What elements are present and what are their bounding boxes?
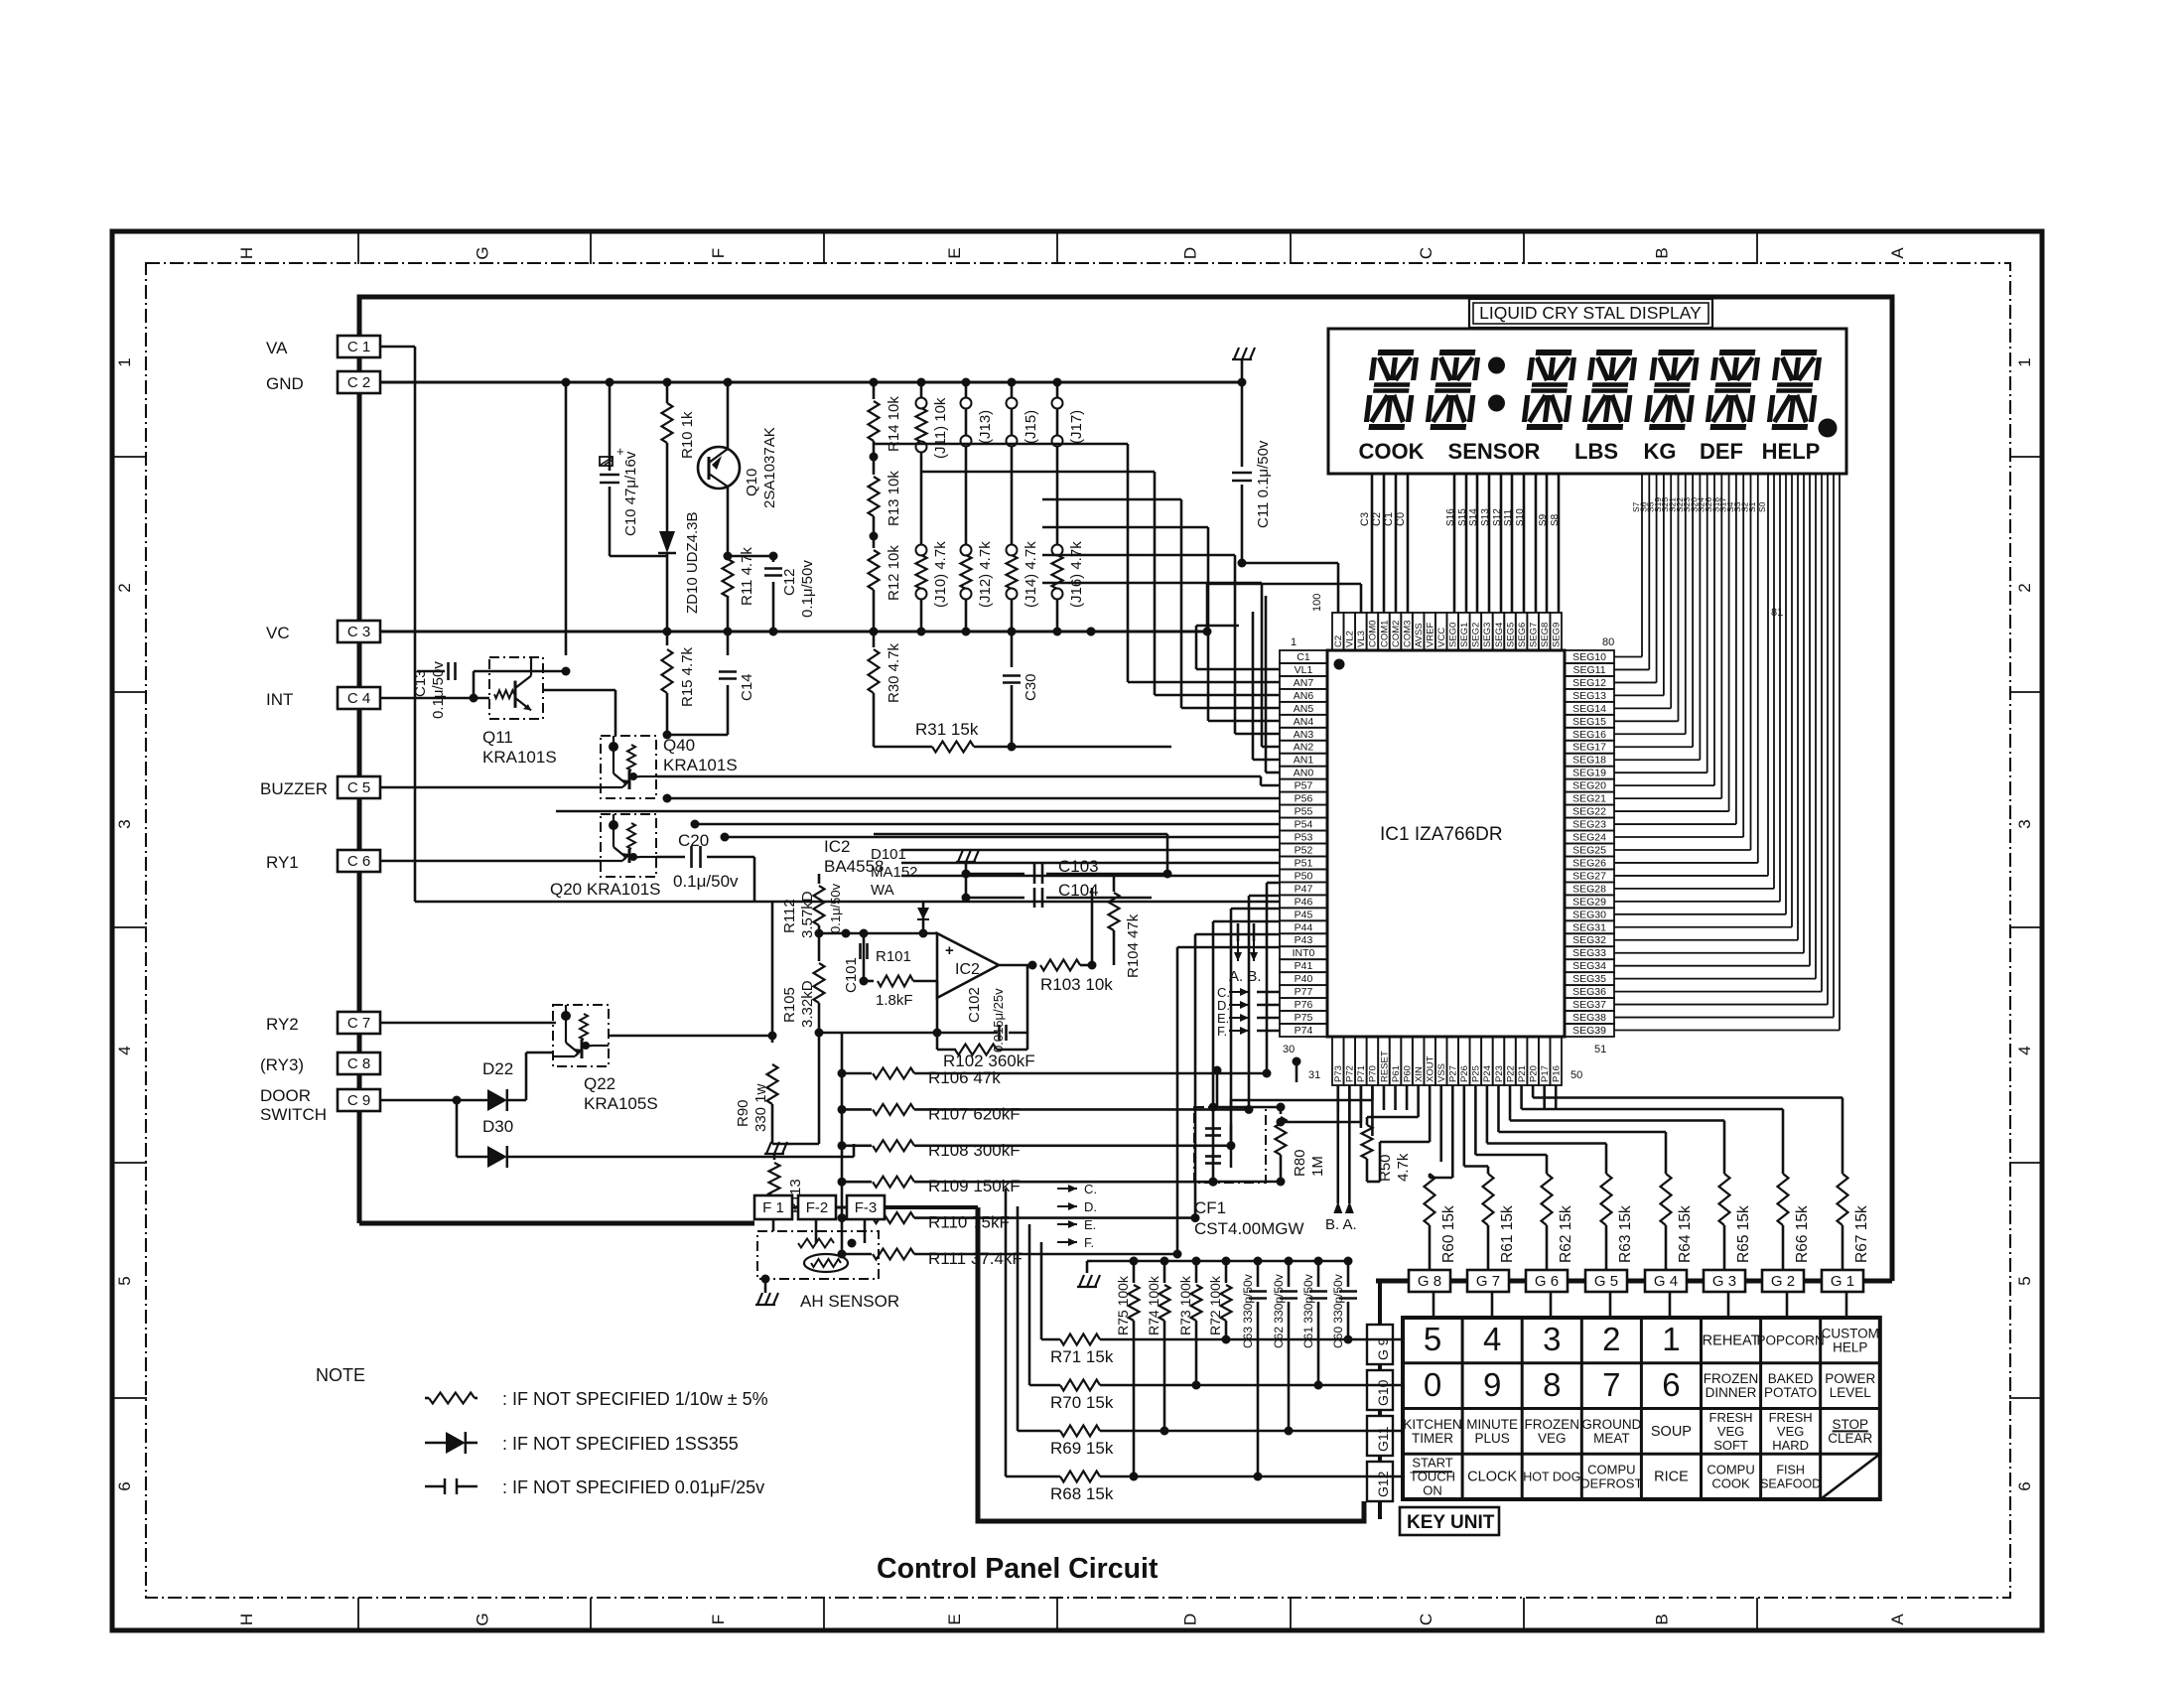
svg-text:SEG31: SEG31 [1572, 921, 1606, 933]
svg-text:P22: P22 [1505, 1065, 1516, 1082]
svg-text:R13 10k: R13 10k [886, 471, 902, 526]
svg-text:R105: R105 [781, 987, 798, 1023]
svg-text:MEAT: MEAT [1593, 1431, 1630, 1446]
svg-text:9: 9 [1483, 1366, 1501, 1403]
svg-text:FRESH: FRESH [1769, 1410, 1813, 1425]
svg-text:SEG10: SEG10 [1572, 651, 1606, 663]
svg-text:P75: P75 [1295, 1012, 1313, 1024]
svg-text:P76: P76 [1295, 999, 1313, 1011]
svg-text:CLOCK: CLOCK [1467, 1470, 1517, 1485]
svg-text:COOK: COOK [1711, 1476, 1750, 1491]
svg-text:TIMER: TIMER [1412, 1431, 1453, 1446]
svg-text:VC: VC [266, 624, 290, 642]
svg-text:P54: P54 [1295, 819, 1313, 831]
svg-text:DOOR: DOOR [260, 1086, 311, 1105]
svg-text:VL1: VL1 [1295, 664, 1313, 676]
svg-text:SEG19: SEG19 [1572, 768, 1606, 779]
svg-text:SOFT: SOFT [1713, 1438, 1748, 1453]
svg-text:P72: P72 [1345, 1065, 1356, 1082]
svg-text:SEG8: SEG8 [1540, 623, 1551, 647]
svg-text:SEG22: SEG22 [1572, 806, 1606, 818]
svg-text:2: 2 [1602, 1321, 1620, 1357]
svg-text:E: E [945, 1614, 964, 1624]
svg-text:AN0: AN0 [1294, 768, 1314, 779]
svg-text:R104 47k: R104 47k [1125, 913, 1142, 978]
svg-text:330 1w: 330 1w [752, 1083, 769, 1132]
svg-text:Control Panel Circuit: Control Panel Circuit [877, 1553, 1159, 1585]
svg-text:CLEAR: CLEAR [1828, 1431, 1872, 1446]
svg-text:3.32kD: 3.32kD [799, 980, 816, 1028]
svg-text:CST4.00MGW: CST4.00MGW [1194, 1219, 1304, 1238]
svg-text:C 1: C 1 [347, 339, 370, 355]
svg-text:R103 10k: R103 10k [1040, 975, 1113, 994]
svg-text:KRA101S: KRA101S [482, 748, 557, 767]
svg-text:P61: P61 [1391, 1065, 1402, 1082]
svg-text:S15: S15 [1457, 508, 1468, 526]
svg-text:R64 15k: R64 15k [1677, 1205, 1694, 1263]
svg-text:E.: E. [1084, 1217, 1096, 1232]
svg-text:P43: P43 [1295, 934, 1313, 946]
svg-text:P16: P16 [1552, 1065, 1563, 1082]
svg-text:P45: P45 [1295, 909, 1313, 920]
svg-text:HARD: HARD [1772, 1438, 1809, 1453]
svg-text:F-2: F-2 [806, 1199, 829, 1216]
svg-text:COMPU: COMPU [1706, 1463, 1754, 1477]
svg-text:Q22: Q22 [584, 1074, 615, 1093]
svg-text:SEG33: SEG33 [1572, 947, 1606, 959]
svg-text:VEG: VEG [1777, 1424, 1804, 1439]
svg-text:5: 5 [1424, 1321, 1441, 1357]
svg-text:SEG7: SEG7 [1528, 623, 1539, 647]
svg-text:0.1μ/50v: 0.1μ/50v [799, 560, 816, 618]
svg-text:C60 330p/50v: C60 330p/50v [1331, 1274, 1345, 1348]
svg-text:S1: S1 [1747, 501, 1757, 512]
svg-text:R111 37.4kF: R111 37.4kF [928, 1249, 1023, 1268]
svg-text:MA152: MA152 [871, 864, 918, 881]
svg-text:DEFROST: DEFROST [1580, 1476, 1642, 1491]
svg-text:A. B.: A. B. [1229, 968, 1262, 985]
svg-text:(J10) 4.7k: (J10) 4.7k [932, 541, 949, 608]
svg-text:RY2: RY2 [266, 1015, 299, 1034]
svg-text:G 8: G 8 [1418, 1273, 1441, 1290]
svg-text:XOUT: XOUT [1425, 1055, 1435, 1082]
svg-text:VREF: VREF [1425, 622, 1435, 647]
svg-text:P17: P17 [1540, 1065, 1551, 1082]
svg-text:SEG4: SEG4 [1494, 623, 1505, 647]
svg-text:Q20 KRA101S: Q20 KRA101S [550, 880, 661, 899]
svg-text:F: F [709, 1614, 728, 1624]
svg-text:R73 100k: R73 100k [1177, 1275, 1193, 1335]
svg-text:R62 15k: R62 15k [1558, 1205, 1574, 1263]
svg-text:POWER: POWER [1825, 1371, 1875, 1386]
svg-text:6: 6 [115, 1481, 134, 1490]
svg-text:1: 1 [2015, 357, 2034, 366]
svg-text:LIQUID CRY STAL DISPLAY: LIQUID CRY STAL DISPLAY [1479, 303, 1702, 323]
svg-text:7: 7 [1602, 1366, 1620, 1403]
svg-text:PLUS: PLUS [1475, 1431, 1510, 1446]
svg-text:POPCORN: POPCORN [1757, 1333, 1825, 1347]
svg-text:AN3: AN3 [1294, 729, 1314, 741]
svg-text:4.7k: 4.7k [1395, 1153, 1412, 1182]
svg-text:F: F [709, 248, 728, 258]
svg-text:R110 75kF: R110 75kF [928, 1213, 1010, 1232]
svg-text:R107 620kF: R107 620kF [928, 1104, 1021, 1123]
svg-text:S8: S8 [1550, 513, 1561, 526]
svg-text:C 5: C 5 [347, 779, 370, 796]
svg-text:R65 15k: R65 15k [1735, 1205, 1752, 1263]
svg-text:D30: D30 [482, 1117, 513, 1136]
svg-text:IC2: IC2 [955, 961, 980, 978]
svg-text:D.: D. [1084, 1199, 1097, 1214]
svg-text:P20: P20 [1528, 1065, 1539, 1082]
svg-text:B: B [1653, 1614, 1672, 1624]
svg-text:S12: S12 [1492, 508, 1503, 526]
svg-text:R90: R90 [735, 1099, 751, 1127]
svg-text:AN7: AN7 [1294, 677, 1314, 689]
svg-text:R101: R101 [876, 948, 911, 965]
svg-text:SEG21: SEG21 [1572, 793, 1606, 805]
svg-text:FRESH: FRESH [1709, 1410, 1753, 1425]
svg-text:REHEAT: REHEAT [1703, 1333, 1760, 1348]
svg-text:C1: C1 [1297, 651, 1310, 663]
svg-text:SEG11: SEG11 [1572, 664, 1605, 676]
svg-text:KRA101S: KRA101S [663, 756, 738, 774]
svg-text:3.57kD: 3.57kD [799, 891, 816, 938]
svg-text:C 8: C 8 [347, 1055, 370, 1072]
svg-text:G 2: G 2 [1771, 1273, 1795, 1290]
svg-text:BUZZER: BUZZER [260, 779, 328, 798]
svg-text:R112: R112 [781, 899, 798, 933]
svg-text:2SA1037AK: 2SA1037AK [761, 427, 778, 508]
svg-text:SEG35: SEG35 [1572, 973, 1606, 985]
svg-text:R63 15k: R63 15k [1617, 1205, 1634, 1263]
svg-text:(RY3): (RY3) [260, 1055, 304, 1074]
svg-text:SEG23: SEG23 [1572, 819, 1606, 831]
svg-text:LBS: LBS [1574, 439, 1618, 464]
svg-text:1M: 1M [1309, 1156, 1326, 1177]
svg-text:F.: F. [1217, 1024, 1227, 1039]
svg-text:C101: C101 [843, 957, 860, 993]
svg-text:WA: WA [871, 882, 894, 899]
svg-text:AN5: AN5 [1294, 703, 1314, 715]
svg-text:C102: C102 [966, 987, 983, 1023]
svg-text:P27: P27 [1448, 1065, 1459, 1082]
svg-text:SEG39: SEG39 [1572, 1025, 1606, 1037]
svg-text:R69 15k: R69 15k [1050, 1439, 1114, 1458]
svg-text:P25: P25 [1471, 1065, 1482, 1082]
svg-text:VL3: VL3 [1356, 631, 1367, 647]
svg-text:G10: G10 [1375, 1379, 1391, 1406]
svg-text:POTATO: POTATO [1764, 1385, 1817, 1400]
svg-text:(J12) 4.7k: (J12) 4.7k [977, 541, 994, 608]
svg-text:F 1: F 1 [762, 1199, 784, 1216]
svg-text:R15 4.7k: R15 4.7k [679, 646, 696, 707]
svg-text:C3: C3 [1359, 512, 1371, 526]
svg-text:H: H [237, 247, 256, 259]
svg-text:C2: C2 [1333, 635, 1344, 647]
svg-text:G 9: G 9 [1375, 1337, 1391, 1360]
svg-text:Q40: Q40 [663, 736, 695, 755]
svg-text:(J13): (J13) [977, 410, 994, 444]
svg-text:2: 2 [2015, 583, 2034, 592]
svg-text:COM2: COM2 [1391, 621, 1402, 647]
svg-text:H: H [237, 1614, 256, 1625]
svg-text:5: 5 [115, 1276, 134, 1285]
svg-text:4: 4 [2015, 1046, 2034, 1054]
svg-text:3: 3 [115, 819, 134, 828]
svg-text:(J16) 4.7k: (J16) 4.7k [1068, 541, 1085, 608]
svg-text:50: 50 [1570, 1069, 1582, 1081]
svg-text:1: 1 [1662, 1321, 1680, 1357]
svg-text:P44: P44 [1295, 921, 1313, 933]
svg-text:SEG27: SEG27 [1572, 870, 1606, 882]
svg-text:MINUTE: MINUTE [1466, 1417, 1518, 1432]
svg-text:SEG15: SEG15 [1572, 716, 1606, 728]
svg-text:6: 6 [2015, 1481, 2034, 1490]
svg-text:SEG6: SEG6 [1517, 623, 1528, 647]
svg-text:HOT DOG: HOT DOG [1523, 1471, 1580, 1484]
svg-text:: IF NOT SPECIFIED 1/10w ± 5%: : IF NOT SPECIFIED 1/10w ± 5% [502, 1389, 768, 1409]
svg-text:INT: INT [266, 690, 293, 709]
svg-text:SEG1: SEG1 [1459, 623, 1470, 647]
svg-text:51: 51 [1594, 1044, 1606, 1055]
svg-text:SEG9: SEG9 [1552, 623, 1563, 647]
svg-text:0.1μ/50v: 0.1μ/50v [673, 872, 739, 891]
svg-text:GROUND: GROUND [1581, 1417, 1641, 1432]
svg-text:81: 81 [1771, 607, 1783, 619]
svg-text:RESET: RESET [1379, 1051, 1390, 1082]
svg-text:C11 0.1μ/50v: C11 0.1μ/50v [1255, 440, 1272, 528]
svg-text:VSS: VSS [1436, 1063, 1447, 1082]
svg-text:AN6: AN6 [1294, 690, 1314, 702]
svg-text:0.1μ/50v: 0.1μ/50v [430, 661, 447, 719]
svg-text:SEG14: SEG14 [1572, 703, 1606, 715]
svg-text:P55: P55 [1295, 806, 1313, 818]
svg-text:KITCHEN: KITCHEN [1403, 1417, 1461, 1432]
svg-text:SEG29: SEG29 [1572, 896, 1606, 908]
svg-text:RICE: RICE [1654, 1470, 1689, 1485]
svg-text:AN4: AN4 [1294, 716, 1314, 728]
svg-text:P47: P47 [1295, 883, 1313, 895]
svg-text:DEF: DEF [1700, 439, 1743, 464]
svg-text:D22: D22 [482, 1059, 513, 1078]
svg-text:RY1: RY1 [266, 853, 299, 872]
svg-text:SEG25: SEG25 [1572, 844, 1606, 856]
svg-text:C14: C14 [739, 673, 755, 701]
svg-text:SWITCH: SWITCH [260, 1105, 327, 1124]
svg-text:C104: C104 [1058, 881, 1099, 900]
svg-text:SEAFOOD: SEAFOOD [1760, 1477, 1821, 1491]
svg-text:SEG5: SEG5 [1505, 623, 1516, 647]
svg-text:R72 100k: R72 100k [1207, 1275, 1223, 1335]
svg-text:C0: C0 [1395, 512, 1407, 526]
svg-text:SEG36: SEG36 [1572, 986, 1606, 998]
svg-text:C 7: C 7 [347, 1015, 370, 1032]
svg-text:LEVEL: LEVEL [1830, 1385, 1872, 1400]
svg-text:8: 8 [1543, 1366, 1561, 1403]
svg-text:AVSS: AVSS [1414, 623, 1425, 647]
svg-text:P73: P73 [1333, 1065, 1344, 1082]
svg-text:CUSTOM: CUSTOM [1822, 1326, 1879, 1340]
svg-text:SEG3: SEG3 [1482, 623, 1493, 647]
svg-text:SENSOR: SENSOR [1448, 439, 1541, 464]
svg-text:B. A.: B. A. [1325, 1216, 1357, 1233]
svg-text:R66 15k: R66 15k [1794, 1205, 1811, 1263]
svg-text:P56: P56 [1295, 793, 1313, 805]
svg-text:F.: F. [1084, 1235, 1094, 1250]
svg-text:A: A [1888, 247, 1907, 259]
svg-text:B: B [1653, 247, 1672, 258]
svg-text:G 6: G 6 [1535, 1273, 1559, 1290]
svg-text:F-3: F-3 [855, 1199, 878, 1216]
svg-text:P50: P50 [1295, 870, 1313, 882]
svg-text:R108 300kF: R108 300kF [928, 1141, 1021, 1160]
svg-text:NOTE: NOTE [316, 1365, 365, 1385]
svg-text:INT0: INT0 [1293, 947, 1315, 959]
svg-text:S14: S14 [1468, 508, 1479, 526]
svg-text:FROZEN: FROZEN [1704, 1371, 1759, 1386]
svg-text:R67 15k: R67 15k [1853, 1205, 1870, 1263]
svg-text:P71: P71 [1356, 1065, 1367, 1082]
svg-text:: IF NOT SPECIFIED 0.01μF/25v: : IF NOT SPECIFIED 0.01μF/25v [502, 1477, 764, 1497]
svg-text:P46: P46 [1295, 896, 1313, 908]
svg-text:COM1: COM1 [1379, 621, 1390, 647]
svg-text:(J11) 10k: (J11) 10k [932, 397, 949, 459]
svg-text:P57: P57 [1295, 780, 1313, 792]
svg-text:S0: S0 [1757, 501, 1767, 512]
svg-text:SEG17: SEG17 [1572, 742, 1606, 754]
svg-text:R80: R80 [1292, 1149, 1308, 1177]
svg-text:SEG0: SEG0 [1448, 623, 1459, 647]
svg-text:FISH: FISH [1776, 1464, 1804, 1477]
svg-text:SEG24: SEG24 [1572, 832, 1606, 844]
svg-text:CF1: CF1 [1194, 1198, 1226, 1217]
svg-text:C2: C2 [1371, 512, 1383, 526]
svg-text:COM3: COM3 [1402, 621, 1413, 647]
svg-text:R61 15k: R61 15k [1499, 1205, 1516, 1263]
svg-text:R10 1k: R10 1k [679, 411, 696, 459]
svg-text:(J15): (J15) [1023, 410, 1039, 444]
svg-text:COM0: COM0 [1368, 621, 1379, 647]
svg-text:5: 5 [2015, 1276, 2034, 1285]
svg-text:1.8kF: 1.8kF [876, 992, 913, 1009]
svg-text:(J14) 4.7k: (J14) 4.7k [1023, 541, 1039, 608]
svg-text:AN2: AN2 [1294, 742, 1314, 754]
svg-text:ON: ON [1423, 1483, 1442, 1498]
svg-text:P51: P51 [1295, 857, 1313, 869]
svg-text:P23: P23 [1494, 1065, 1505, 1082]
svg-text:100: 100 [1311, 594, 1323, 612]
svg-text:G 1: G 1 [1831, 1273, 1854, 1290]
svg-text:SEG34: SEG34 [1572, 960, 1606, 972]
svg-text:R31 15k: R31 15k [915, 720, 979, 739]
svg-text:G: G [474, 1613, 492, 1625]
svg-text:S9: S9 [1538, 513, 1549, 526]
svg-text:30: 30 [1283, 1044, 1295, 1055]
svg-text:P60: P60 [1402, 1065, 1413, 1082]
svg-text:SEG13: SEG13 [1572, 690, 1606, 702]
svg-text:C63 330p/50v: C63 330p/50v [1241, 1274, 1255, 1348]
svg-text:BAKED: BAKED [1768, 1371, 1814, 1386]
svg-text:31: 31 [1308, 1069, 1320, 1081]
svg-text:C103: C103 [1058, 857, 1099, 876]
svg-text:SEG2: SEG2 [1471, 623, 1482, 647]
svg-text:DINNER: DINNER [1706, 1385, 1757, 1400]
svg-text:3: 3 [2015, 819, 2034, 828]
svg-text:P52: P52 [1295, 844, 1313, 856]
svg-text:3: 3 [1543, 1321, 1561, 1357]
svg-text:SEG18: SEG18 [1572, 755, 1606, 767]
svg-text:G 5: G 5 [1594, 1273, 1618, 1290]
svg-text:SEG26: SEG26 [1572, 857, 1606, 869]
svg-text:FROZEN: FROZEN [1525, 1417, 1580, 1432]
svg-text:VEG: VEG [1538, 1431, 1567, 1446]
svg-text:XIN: XIN [1414, 1066, 1425, 1082]
svg-text:START: START [1412, 1456, 1452, 1471]
svg-text:KG: KG [1644, 439, 1677, 464]
svg-text:C62 330p/50v: C62 330p/50v [1272, 1274, 1286, 1348]
svg-text:A: A [1888, 1614, 1907, 1625]
svg-text:C13: C13 [412, 669, 429, 697]
svg-text:P26: P26 [1459, 1065, 1470, 1082]
svg-text:GND: GND [266, 374, 304, 393]
svg-text:P21: P21 [1517, 1065, 1528, 1082]
svg-text:R71 15k: R71 15k [1050, 1347, 1114, 1366]
svg-text:SEG12: SEG12 [1572, 677, 1606, 689]
svg-text:R70 15k: R70 15k [1050, 1393, 1114, 1412]
svg-text:SOUP: SOUP [1651, 1424, 1692, 1440]
svg-text:SEG30: SEG30 [1572, 909, 1606, 920]
svg-text:STOP: STOP [1832, 1417, 1868, 1432]
svg-text:C10 47μ/16v: C10 47μ/16v [622, 451, 639, 536]
svg-text:G 7: G 7 [1476, 1273, 1500, 1290]
svg-text:SEG20: SEG20 [1572, 780, 1606, 792]
svg-text:R30 4.7k: R30 4.7k [886, 642, 902, 703]
svg-text:SEG32: SEG32 [1572, 934, 1606, 946]
svg-text:6: 6 [1662, 1366, 1680, 1403]
svg-text:C 3: C 3 [347, 624, 370, 640]
svg-text:SEG37: SEG37 [1572, 999, 1606, 1011]
svg-text:P70: P70 [1368, 1065, 1379, 1082]
svg-text:AN1: AN1 [1294, 755, 1314, 767]
svg-text:C: C [1417, 247, 1435, 259]
svg-text:P53: P53 [1295, 832, 1313, 844]
svg-text:SEG28: SEG28 [1572, 883, 1606, 895]
svg-text:Q10: Q10 [744, 469, 760, 496]
svg-text:KRA105S: KRA105S [584, 1094, 658, 1113]
svg-text:1: 1 [115, 357, 134, 366]
svg-text:VA: VA [266, 339, 288, 357]
svg-text:4: 4 [1483, 1321, 1501, 1357]
svg-text:4: 4 [115, 1046, 134, 1054]
svg-text:P77: P77 [1295, 986, 1313, 998]
svg-text:Q11: Q11 [482, 728, 513, 747]
svg-text:S13: S13 [1480, 508, 1491, 526]
svg-text:S10: S10 [1515, 508, 1526, 526]
svg-text:VCC: VCC [1436, 628, 1447, 647]
svg-text:ZD10 UDZ4.3B: ZD10 UDZ4.3B [684, 511, 701, 614]
svg-text:C: C [1417, 1614, 1435, 1625]
svg-text:P74: P74 [1295, 1025, 1313, 1037]
svg-text:VL2: VL2 [1345, 631, 1356, 647]
svg-text:S16: S16 [1445, 508, 1456, 526]
svg-text:(J17): (J17) [1068, 410, 1085, 444]
svg-text:HELP: HELP [1762, 439, 1821, 464]
svg-text:HELP: HELP [1833, 1339, 1867, 1354]
svg-text:R75 100k: R75 100k [1115, 1275, 1131, 1335]
svg-text:D101: D101 [871, 846, 906, 863]
svg-text:P24: P24 [1482, 1065, 1493, 1082]
